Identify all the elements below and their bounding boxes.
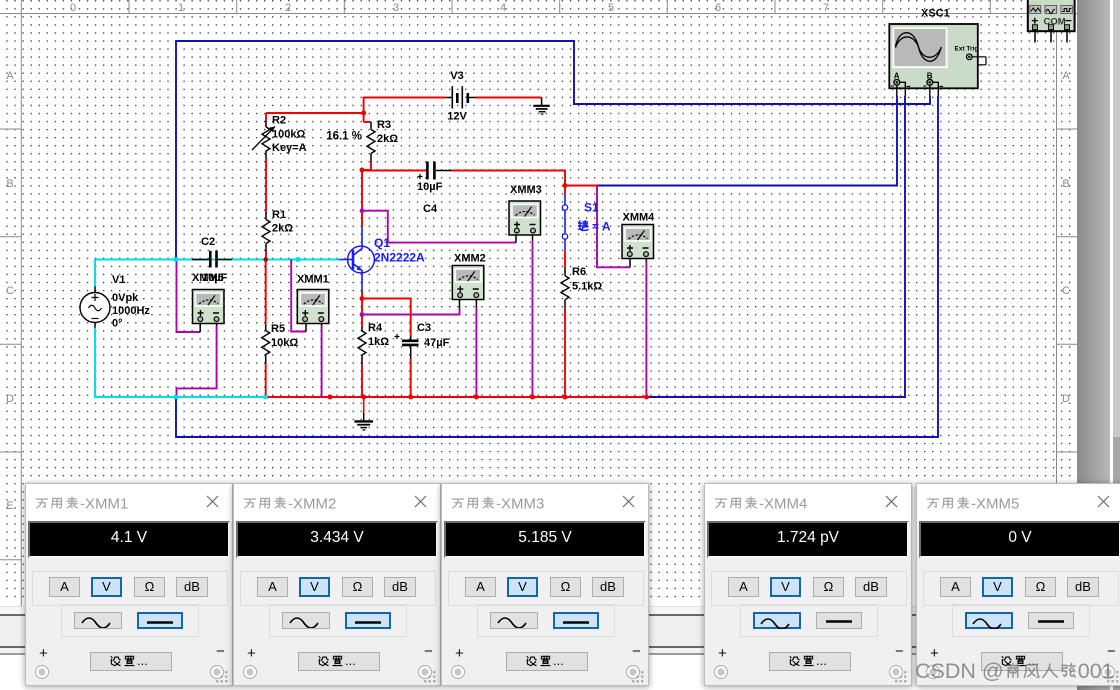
- multimeter dialog XMM3: [441, 483, 649, 686]
- multimeter dialog XMM4: [704, 483, 912, 686]
- svg-text:-XMM1: -XMM1: [80, 496, 128, 513]
- svg-text:R5: R5: [271, 323, 285, 335]
- svg-text:1kΩ: 1kΩ: [368, 336, 389, 348]
- sheet frame left border column with zone letters: [0, 14, 21, 607]
- svg-text:R2: R2: [272, 115, 286, 127]
- wire: purple XMM2 - lead to ground bus: [475, 308, 477, 397]
- resistor R4 1k: [358, 327, 366, 364]
- svg-text:XSC1: XSC1: [921, 8, 950, 20]
- wire: collector node up/down red: [361, 170, 363, 227]
- svg-text:C: C: [1062, 285, 1070, 297]
- svg-text:1: 1: [178, 2, 184, 14]
- junction dots: [328, 111, 650, 400]
- wire: purple XMM1 - lead: [321, 326, 323, 397]
- svg-text:R3: R3: [377, 119, 391, 131]
- svg-text:4: 4: [500, 2, 506, 14]
- svg-text:XMM4: XMM4: [623, 212, 656, 224]
- svg-text:V1: V1: [112, 274, 125, 286]
- wire: bottom cyan V1- to ground bus: [95, 328, 266, 397]
- svg-text:2N2222A: 2N2222A: [374, 251, 425, 265]
- svg-text:R4: R4: [368, 322, 383, 334]
- wire: C3 to ground bus red: [410, 359, 412, 398]
- svg-text:12V: 12V: [447, 111, 467, 123]
- label R5 10kOhm: [271, 323, 298, 349]
- wire: purple XMM5 - lead: [177, 326, 217, 397]
- capacitor C4 10uF polar: [418, 162, 452, 180]
- wire: purple XMM5 + lead: [177, 260, 201, 333]
- svg-text:7: 7: [823, 2, 829, 14]
- multimeter icon XMM2: [452, 266, 484, 300]
- wire: blue scope A- net to ground bus end: [647, 96, 906, 397]
- switch S1: [562, 194, 567, 251]
- wire: ground bus red: [266, 396, 647, 398]
- capacitor C2 10uF: [192, 251, 232, 268]
- wire: C4 right to output node red: [451, 171, 597, 186]
- wire: output node to S1 red: [564, 186, 566, 195]
- svg-text:A: A: [6, 70, 14, 82]
- transistor Q1 2N2222A: [339, 227, 374, 291]
- workspace bottom bands: [0, 606, 1078, 614]
- svg-text:B: B: [6, 178, 13, 190]
- svg-text:C3: C3: [417, 322, 431, 334]
- label V1 0Vpk 1000Hz 0deg: [112, 274, 150, 330]
- label C3 47uF: [417, 322, 450, 349]
- svg-text:5: 5: [608, 2, 614, 14]
- wire: base node to R5 red: [265, 260, 267, 326]
- multimeter dialog XMM5: [916, 483, 1120, 686]
- wire: R6 to ground bus red: [564, 308, 566, 397]
- svg-text:C2: C2: [201, 236, 215, 248]
- svg-text:...: ...: [816, 653, 827, 668]
- svg-text:-XMM3: -XMM3: [496, 496, 544, 513]
- wire: purple XMM1 + lead: [291, 260, 306, 332]
- svg-text:V3: V3: [450, 70, 463, 82]
- wire: input net cyan V1+ to C2 to base: [95, 260, 339, 287]
- svg-text:-XMM4: -XMM4: [759, 496, 807, 513]
- wire: collector node to C4 red: [362, 170, 426, 172]
- svg-text:16.1 %: 16.1 %: [326, 131, 362, 143]
- svg-text:D: D: [1062, 393, 1070, 405]
- svg-text:COM: COM: [1044, 17, 1066, 28]
- meter terminal pins: [200, 235, 646, 332]
- sheet frame right border column with zone letters: [1057, 14, 1079, 607]
- svg-text:-XMM5: -XMM5: [971, 496, 1019, 513]
- ground (bottom, at bus): [354, 397, 373, 430]
- svg-text:XMM5: XMM5: [192, 272, 224, 284]
- multimeter dialog XMM2: [233, 483, 441, 686]
- vertical scrollbar (cut off): [1113, 0, 1120, 437]
- svg-text:D: D: [6, 393, 14, 405]
- off-sheet gray area right: [1077, 0, 1110, 690]
- resistor R3 2k: [367, 122, 375, 162]
- svg-text:3: 3: [393, 2, 399, 14]
- label C4 10uF: [417, 181, 443, 215]
- wire: purple XMM3 - lead to ground bus: [532, 241, 534, 397]
- DC source V3 12V battery: [446, 86, 476, 108]
- svg-text:6: 6: [715, 2, 721, 14]
- svg-text:10kΩ: 10kΩ: [271, 337, 298, 349]
- function generator instrument (cut off at top): [1028, 0, 1075, 43]
- wire: R2 to R1 red: [265, 158, 267, 212]
- resistor R6 5.1k: [561, 268, 569, 309]
- wire: R3 bottom to collector node red: [362, 162, 371, 170]
- label R4 1kOhm: [368, 322, 389, 348]
- multimeter icon XMM4: [622, 225, 654, 259]
- wire: blue scope A+ net to output node: [597, 96, 897, 186]
- label R2 100kOhm Key=A: [272, 115, 307, 155]
- svg-text:S1: S1: [584, 201, 599, 215]
- wire: purple XMM4 + lead to output node: [597, 186, 630, 268]
- svg-text:Q1: Q1: [374, 236, 390, 250]
- wire: VCC rail red: [266, 98, 542, 123]
- wire: purple XMM4 - lead to ground bus: [645, 262, 647, 397]
- svg-text:R1: R1: [272, 209, 286, 221]
- label Q1 2N2222A: [374, 236, 425, 265]
- wire: S1 to R6 red: [564, 251, 566, 268]
- multimeter dialog XMM1: [25, 483, 233, 686]
- wire: R5 to ground bus red: [265, 363, 267, 397]
- svg-text:1000Hz: 1000Hz: [112, 305, 150, 317]
- svg-text:C: C: [6, 285, 14, 297]
- capacitor C3 47uF: [395, 334, 419, 359]
- svg-text:...: ...: [553, 653, 564, 668]
- svg-text:100kΩ: 100kΩ: [272, 129, 305, 141]
- resistor R2 (potentiometer 100k): [252, 120, 275, 158]
- ground (top, at V3): [533, 98, 550, 115]
- wire: R2 top lead red: [265, 113, 267, 120]
- svg-text:Key=A: Key=A: [272, 142, 307, 154]
- svg-text:Ext Trig: Ext Trig: [955, 46, 979, 53]
- sheet frame top border row with zone numbers: [0, 0, 1078, 14]
- svg-text:2: 2: [285, 2, 291, 14]
- svg-text:XMM2: XMM2: [454, 253, 486, 265]
- label R3 2kOhm: [377, 119, 398, 145]
- svg-text:XMM3: XMM3: [510, 184, 542, 196]
- wire: emitter to C3 red: [362, 299, 411, 337]
- wire: blue scope B- net to bottom cyan junction: [176, 96, 938, 437]
- svg-text:...: ...: [137, 653, 148, 668]
- svg-text:...: ...: [345, 653, 356, 668]
- AC source V1: [80, 286, 110, 328]
- resistor R5 10k: [262, 325, 270, 363]
- svg-text:0°: 0°: [112, 318, 123, 330]
- svg-text:5.1kΩ: 5.1kΩ: [572, 281, 602, 293]
- svg-text:0: 0: [70, 2, 76, 14]
- wire: R4 to ground bus red: [361, 364, 363, 397]
- svg-text:B: B: [1062, 178, 1069, 190]
- svg-text:R6: R6: [572, 266, 586, 278]
- watermark CSDN: [915, 659, 1120, 689]
- resistor R1 2k: [262, 212, 270, 251]
- svg-text:= A: = A: [592, 220, 611, 234]
- junction dot at base node (R1/R5): [263, 257, 268, 262]
- svg-text:2kΩ: 2kΩ: [377, 133, 398, 145]
- label R6 5.1kOhm: [572, 266, 602, 293]
- wire: purple XMM3 + lead to collector: [362, 211, 516, 243]
- svg-text:47µF: 47µF: [424, 337, 450, 349]
- svg-text:A: A: [1062, 70, 1070, 82]
- multimeter icon XMM1: [297, 290, 329, 324]
- svg-text:0Vpk: 0Vpk: [112, 292, 139, 304]
- svg-text:10µF: 10µF: [417, 181, 443, 193]
- oscilloscope XSC1: [889, 24, 986, 96]
- label R1 2kOhm: [272, 209, 293, 235]
- wire: R1 to base node red: [265, 251, 267, 260]
- multimeter icon XMM3: [509, 201, 541, 235]
- wire: emitter node red: [361, 291, 363, 327]
- wire: blue scope B+ net along top: [176, 41, 930, 260]
- svg-text:-XMM2: -XMM2: [288, 496, 336, 513]
- label V3 12V: [447, 70, 467, 123]
- multimeter icon XMM5: [193, 290, 225, 324]
- wire: purple XMM2 + lead to emitter: [362, 308, 460, 315]
- svg-text:E: E: [6, 500, 13, 512]
- svg-text:2kΩ: 2kΩ: [272, 223, 293, 235]
- svg-text:C4: C4: [423, 203, 438, 215]
- svg-text:XMM1: XMM1: [297, 274, 329, 286]
